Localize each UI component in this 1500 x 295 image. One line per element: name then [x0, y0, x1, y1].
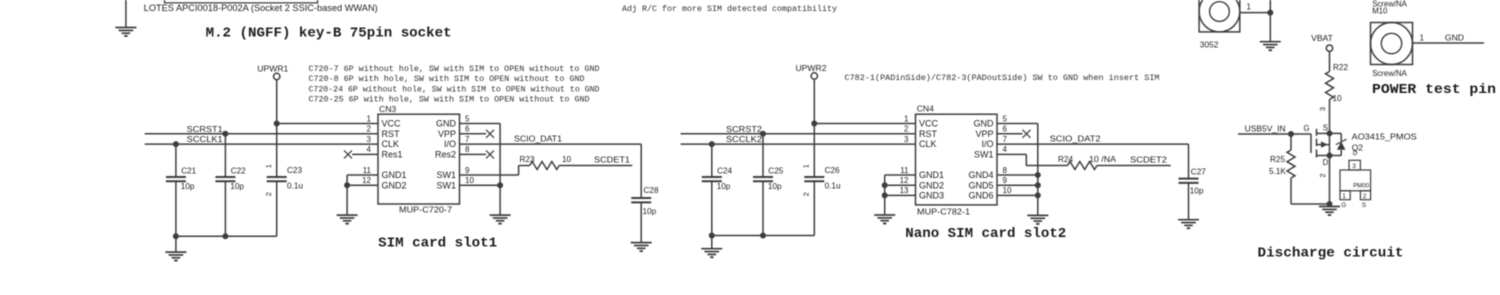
- note C720 options 4 lines: [309, 64, 600, 105]
- svg-text:GND: GND: [1445, 33, 1464, 43]
- svg-text:10p: 10p: [768, 182, 782, 191]
- svg-text:1: 1: [1342, 193, 1346, 200]
- svg-text:Discharge circuit: Discharge circuit: [1258, 245, 1404, 261]
- svg-text:3: 3: [1352, 163, 1356, 170]
- svg-text:7: 7: [465, 135, 470, 144]
- svg-text:R25: R25: [1270, 155, 1285, 164]
- svg-text:2: 2: [367, 125, 372, 134]
- title M.2 (NGFF) key-B 75pin socket: [206, 25, 452, 41]
- svg-text:C720-24 6P without hole, SW wi: C720-24 6P without hole, SW with SIM to …: [309, 84, 600, 94]
- svg-text:S: S: [1323, 123, 1328, 132]
- svg-text:C720-8 6P with hole, SW with S: C720-8 6P with hole, SW with SIM to OPEN…: [309, 74, 585, 84]
- svg-text:GND3: GND3: [919, 191, 944, 201]
- wire ground rail slot2: [709, 233, 815, 239]
- svg-text:VPP: VPP: [438, 129, 456, 139]
- svg-text:4: 4: [1003, 145, 1008, 154]
- pin 6 VPP no-connect: [997, 130, 1031, 138]
- wire UPWR1 vertical to C23: [276, 80, 278, 177]
- pin 8 Res2 no-connect: [460, 150, 495, 158]
- svg-text:3: 3: [367, 135, 372, 144]
- wire VBAT to R22: [1329, 51, 1331, 71]
- wire VCC to CN4 pin1: [811, 121, 915, 127]
- title Nano SIM card slot2: [905, 226, 1066, 242]
- svg-text:5: 5: [1003, 114, 1008, 123]
- node UPWR2: [795, 63, 826, 79]
- svg-text:11: 11: [900, 166, 909, 175]
- wire SCCLK1: [145, 141, 378, 147]
- svg-text:10p: 10p: [717, 182, 731, 191]
- svg-text:PM00: PM00: [1353, 182, 1370, 189]
- svg-text:10p: 10p: [643, 207, 657, 216]
- svg-text:10p: 10p: [230, 182, 244, 191]
- svg-text:6: 6: [1003, 125, 1008, 134]
- wire pins 11,12 to ground: [344, 175, 378, 215]
- svg-text:10: 10: [562, 155, 572, 164]
- svg-text:9: 9: [1003, 176, 1008, 185]
- pin 4 Res1 no-connect: [344, 150, 378, 158]
- svg-text:C24: C24: [717, 167, 732, 176]
- svg-text:C27: C27: [1191, 168, 1206, 177]
- svg-text:SCIO_DAT2: SCIO_DAT2: [1050, 134, 1101, 144]
- screw 3052 (cut off at top): [1199, 0, 1240, 49]
- svg-text:2: 2: [1318, 173, 1327, 177]
- label AO3415_PMOS Q2: [1352, 132, 1417, 153]
- ground: [165, 252, 186, 261]
- wire R22 to Q2 source, pin 3: [1318, 100, 1329, 134]
- wire ground rail slot1: [173, 233, 277, 239]
- svg-text:C21: C21: [181, 167, 196, 176]
- pin numbers CN3 left: [362, 114, 371, 185]
- svg-text:6: 6: [465, 125, 470, 134]
- wire SCIO_DAT2: [997, 144, 1189, 179]
- svg-text:10: 10: [465, 176, 474, 185]
- svg-text:RST: RST: [919, 129, 938, 139]
- svg-text:D: D: [1353, 150, 1358, 157]
- svg-text:5: 5: [465, 114, 470, 123]
- wire vertical to ground: [1267, 0, 1273, 42]
- ground: [1260, 42, 1281, 51]
- wire pin9 SW1 to R23: [460, 166, 530, 176]
- ground: [1027, 215, 1048, 224]
- svg-text:VCC: VCC: [919, 119, 939, 129]
- resistor R22: [1326, 63, 1349, 103]
- connector CN4 (Nano SIM socket): [916, 104, 998, 217]
- svg-text:GND2: GND2: [382, 180, 407, 190]
- svg-text:3052: 3052: [1200, 39, 1219, 49]
- svg-text:UPWR1: UPWR1: [257, 64, 288, 74]
- svg-text:2: 2: [1363, 193, 1367, 200]
- wire SCCLK2: [681, 141, 916, 147]
- svg-text:SCCLK2: SCCLK2: [726, 134, 762, 144]
- ground: [631, 243, 652, 252]
- pin numbers CN4 left: [900, 114, 909, 195]
- svg-text:7: 7: [1003, 135, 1008, 144]
- svg-text:GND: GND: [974, 119, 995, 129]
- node SCCLK1: [187, 134, 223, 144]
- pin 6 VPP no-connect: [460, 130, 495, 138]
- wire R25 bottom to drain node: [1291, 201, 1333, 207]
- capacitor C24: [702, 144, 733, 235]
- capacitor C26: [802, 164, 841, 235]
- svg-text:SW1: SW1: [436, 180, 456, 190]
- wire rail stem to ground: [175, 236, 177, 252]
- svg-text:VCC: VCC: [382, 119, 402, 129]
- svg-text:10: 10: [1003, 186, 1012, 195]
- svg-text:5.1K: 5.1K: [1269, 167, 1286, 176]
- note Adj R/C: [622, 4, 837, 14]
- svg-text:SW1: SW1: [436, 170, 456, 180]
- wire pin10 SW1: [460, 182, 504, 188]
- svg-text:SCRST1: SCRST1: [187, 124, 223, 134]
- ground: [874, 215, 895, 224]
- svg-text:Nano SIM card slot2: Nano SIM card slot2: [905, 226, 1066, 242]
- svg-text:MUP-C720-7: MUP-C720-7: [399, 205, 452, 215]
- svg-text:M10: M10: [1372, 6, 1388, 15]
- svg-text:3: 3: [904, 135, 909, 144]
- svg-text:Res2: Res2: [435, 150, 456, 160]
- svg-text:1: 1: [802, 164, 811, 168]
- svg-text:I/O: I/O: [444, 139, 456, 149]
- pin 1 wire to GND: [1413, 34, 1485, 43]
- svg-text:SIM card slot1: SIM card slot1: [378, 235, 497, 251]
- screw M10 Screw/NA: [1371, 0, 1413, 78]
- ground: [1178, 220, 1199, 229]
- note C782 SW to GND: [845, 73, 1160, 83]
- svg-text:SCCLK1: SCCLK1: [187, 134, 223, 144]
- svg-text:8: 8: [465, 145, 470, 154]
- wire pins 8,9,10: [997, 172, 1041, 198]
- svg-text:10 /NA: 10 /NA: [1089, 155, 1117, 164]
- svg-text:Res1: Res1: [382, 150, 403, 160]
- pin numbers CN4 right: [1003, 114, 1012, 195]
- wire: [125, 0, 127, 28]
- ground: [337, 215, 358, 224]
- svg-text:SCRST2: SCRST2: [726, 124, 762, 134]
- wire R24 to SCDET2: [1097, 165, 1171, 167]
- svg-text:13: 13: [900, 186, 909, 195]
- svg-text:4: 4: [367, 145, 372, 154]
- svg-text:UPWR2: UPWR2: [795, 63, 826, 73]
- svg-text:CLK: CLK: [919, 139, 937, 149]
- svg-text:9: 9: [465, 166, 470, 175]
- capacitor C23: [264, 164, 303, 236]
- title Discharge circuit: [1258, 245, 1404, 261]
- wire pin5 GND down: [460, 124, 501, 216]
- svg-text:SCDET2: SCDET2: [1130, 155, 1167, 165]
- svg-text:C782-1(PADinSide)/C782-3(PADou: C782-1(PADinSide)/C782-3(PADoutSide) SW …: [845, 73, 1160, 83]
- node SCRST1: [187, 124, 223, 134]
- capacitor C27: [1179, 168, 1207, 220]
- svg-text:12: 12: [362, 176, 371, 185]
- resistor R25 5.1K: [1269, 134, 1295, 204]
- svg-text:2: 2: [802, 192, 811, 196]
- resistor R24: [1058, 155, 1117, 169]
- wire SCRST1: [145, 131, 378, 137]
- svg-text:GND2: GND2: [919, 180, 944, 190]
- svg-text:10: 10: [1333, 94, 1343, 103]
- svg-text:C25: C25: [768, 167, 783, 176]
- svg-text:11: 11: [363, 166, 372, 175]
- svg-text:SCDET1: SCDET1: [594, 155, 630, 165]
- svg-text:C23: C23: [287, 166, 302, 175]
- svg-text:M.2 (NGFF) key-B 75pin socket: M.2 (NGFF) key-B 75pin socket: [206, 25, 452, 41]
- svg-text:S: S: [1362, 202, 1367, 209]
- svg-text:R23: R23: [520, 155, 535, 164]
- wire pin4 SW1 to R24: [997, 154, 1068, 165]
- svg-text:3: 3: [1318, 107, 1327, 111]
- label LOTES socket: [144, 3, 378, 13]
- wire pins 11,12,13 to ground: [882, 175, 916, 215]
- svg-text:1: 1: [367, 114, 372, 123]
- pin 1 wire: [1240, 3, 1271, 13]
- ground: [1319, 156, 1340, 216]
- svg-text:GND: GND: [436, 119, 457, 129]
- svg-text:GND6: GND6: [968, 191, 993, 201]
- Q2 footprint SOT-23: [1340, 150, 1371, 209]
- wire pin5 GND down: [997, 124, 1038, 216]
- wire SCRST2: [681, 131, 916, 137]
- svg-text:0.1u: 0.1u: [825, 181, 841, 190]
- capacitor C22: [215, 134, 246, 236]
- ground: [701, 249, 722, 258]
- svg-text:CN3: CN3: [379, 104, 396, 114]
- svg-text:G: G: [1304, 124, 1310, 133]
- transistor Q2 AO3415 PMOS: [1304, 123, 1347, 177]
- svg-text:I/O: I/O: [981, 139, 993, 149]
- svg-text:G: G: [1341, 202, 1346, 209]
- svg-text:MUP-C782-1: MUP-C782-1: [917, 207, 970, 217]
- svg-text:2: 2: [904, 125, 909, 134]
- svg-text:SCIO_DAT1: SCIO_DAT1: [514, 134, 562, 144]
- svg-text:C26: C26: [825, 166, 840, 175]
- node SCRST2: [726, 124, 762, 134]
- wire UPWR2 vertical to C26: [813, 79, 815, 177]
- wire SCIO_DAT1: [460, 144, 642, 198]
- node SCDET1: [594, 155, 630, 165]
- wire VCC to pin1: [274, 121, 378, 127]
- svg-text:R24: R24: [1058, 155, 1073, 164]
- svg-text:CN4: CN4: [917, 104, 934, 114]
- svg-text:POWER test pin: POWER test pin: [1372, 82, 1496, 98]
- node GND: [1445, 33, 1464, 43]
- svg-text:R22: R22: [1333, 63, 1348, 72]
- node USB5V_IN: [1245, 123, 1286, 133]
- svg-text:RST: RST: [382, 129, 401, 139]
- svg-text:GND1: GND1: [919, 170, 944, 180]
- svg-text:12: 12: [900, 176, 909, 185]
- title POWER test pin: [1372, 82, 1496, 98]
- node VBAT: [1311, 33, 1334, 51]
- svg-text:AO3415_PMOS: AO3415_PMOS: [1352, 132, 1417, 142]
- svg-text:VPP: VPP: [975, 129, 993, 139]
- pin numbers CN3 right: [465, 114, 474, 185]
- capacitor C25: [753, 134, 784, 236]
- node SCDET2: [1130, 155, 1167, 165]
- svg-text:SW1: SW1: [974, 150, 994, 160]
- ground: [490, 215, 511, 224]
- svg-text:Adj R/C for more SIM detected: Adj R/C for more SIM detected compatibil…: [622, 4, 837, 14]
- svg-text:10p: 10p: [181, 182, 195, 191]
- resistor R23: [520, 155, 572, 169]
- svg-text:GND4: GND4: [968, 170, 993, 180]
- wire rail stem to ground: [711, 236, 713, 249]
- title SIM card slot1: [378, 235, 497, 251]
- svg-text:1: 1: [1247, 3, 1252, 12]
- svg-text:8: 8: [1003, 166, 1008, 175]
- svg-text:0.1u: 0.1u: [287, 181, 303, 190]
- svg-text:C720-25 6P with hole, SW with: C720-25 6P with hole, SW with SIM to OPE…: [309, 95, 590, 105]
- svg-text:C720-7 6P without hole, SW wit: C720-7 6P without hole, SW with SIM to O…: [309, 64, 600, 74]
- svg-text:10p: 10p: [1190, 187, 1204, 196]
- svg-text:VBAT: VBAT: [1311, 33, 1334, 43]
- svg-text:LOTES APCI0018-P002A (Socket 2: LOTES APCI0018-P002A (Socket 2 SSIC-base…: [144, 3, 378, 13]
- svg-text:C22: C22: [231, 167, 246, 176]
- svg-text:1: 1: [904, 114, 909, 123]
- node SCCLK2: [726, 134, 762, 144]
- wire R23 to SCDET1: [559, 165, 632, 167]
- svg-text:D: D: [1323, 158, 1329, 167]
- svg-text:Screw/NA: Screw/NA: [1372, 69, 1407, 78]
- svg-text:1: 1: [264, 164, 273, 168]
- svg-text:GND5: GND5: [968, 180, 993, 190]
- M.2 socket box (cut off at top): [165, 0, 318, 3]
- node UPWR1: [257, 64, 288, 80]
- svg-text:CLK: CLK: [382, 139, 400, 149]
- svg-text:GND1: GND1: [382, 170, 407, 180]
- node SCIO_DAT2: [1050, 134, 1101, 144]
- node SCIO_DAT1: [514, 134, 562, 144]
- capacitor C21: [166, 144, 197, 236]
- capacitor C28: [631, 186, 659, 242]
- ground: [115, 28, 136, 37]
- svg-text:1: 1: [1420, 34, 1425, 43]
- svg-text:USB5V_IN: USB5V_IN: [1245, 123, 1286, 133]
- wire USB5V_IN to gate: [1238, 131, 1311, 137]
- svg-text:C28: C28: [644, 186, 659, 195]
- connector CN3 (SIM socket): [378, 104, 460, 215]
- svg-text:2: 2: [264, 192, 273, 196]
